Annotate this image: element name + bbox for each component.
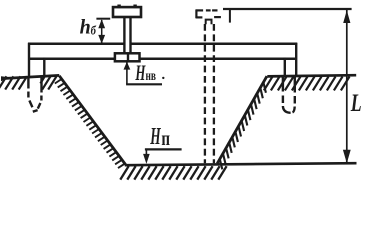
dimension h_v down arrow	[98, 35, 105, 44]
platform left edge	[28, 43, 30, 78]
platform left inner support edge	[43, 58, 45, 77]
driven pile (dashed, centre)	[205, 24, 214, 163]
svg-text:Н: Н	[135, 61, 146, 86]
svg-text:нв: нв	[146, 67, 157, 83]
dimension H_p down arrow	[143, 154, 150, 164]
platform right inner support edge	[284, 58, 286, 77]
dimension H_p shelf line	[145, 148, 182, 150]
hammer cap lugs	[117, 5, 120, 9]
dimension h_v line	[101, 20, 103, 43]
platform right edge	[295, 43, 297, 76]
platform bottom chord	[28, 58, 115, 61]
dimension L down arrow	[343, 150, 351, 163]
svg-text:Н: Н	[150, 123, 162, 150]
platform top chord	[28, 43, 124, 46]
svg-text:h: h	[80, 16, 91, 39]
dimension L extension line	[223, 8, 352, 10]
dimension L line	[346, 10, 348, 163]
dimension L up arrow	[343, 10, 350, 23]
right support pile (buried part)	[283, 76, 295, 113]
dimension L extension tick	[229, 10, 231, 23]
pit bottom hatch	[120, 166, 226, 179]
dimension H_nv leader	[126, 62, 128, 84]
hammer cap (lower position)	[113, 7, 141, 17]
hammer raised position (dashed)	[196, 10, 221, 25]
svg-text:L: L	[350, 88, 362, 117]
dimension H_nv arrow	[124, 62, 131, 70]
dimension H_p arrow line	[145, 150, 147, 156]
left slope of pit	[59, 76, 125, 165]
dimension h_v tick	[96, 18, 110, 20]
right slope hatch comb	[220, 82, 266, 169]
right slope of pit	[217, 76, 267, 163]
left support pile (buried part)	[28, 76, 41, 112]
ground hatch left	[0, 76, 56, 89]
left slope hatch comb	[55, 79, 125, 168]
dimension h_v up arrow	[98, 19, 105, 28]
ground line left	[2, 75, 60, 78]
pile helmet block	[115, 53, 140, 61]
pit bottom line	[125, 163, 357, 165]
ground hatch right	[264, 77, 350, 91]
ground line right	[267, 75, 356, 76]
svg-text:п: п	[161, 127, 170, 150]
hammer mast columns	[123, 17, 125, 54]
